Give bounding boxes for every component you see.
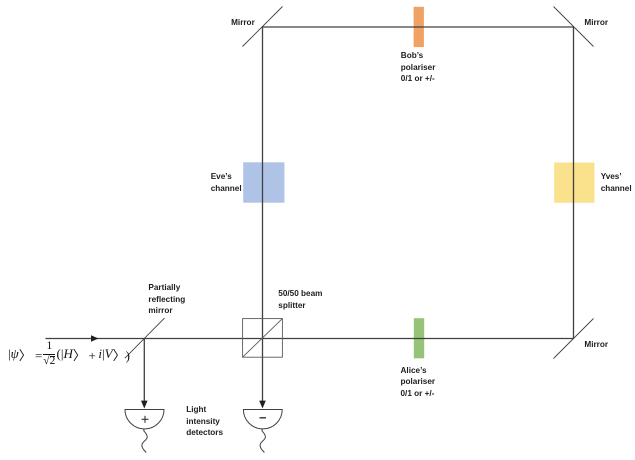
label: Partially reflecting mirror — [148, 282, 185, 317]
label: Eve's channel — [211, 171, 242, 194]
label: 50/50 beam splitter — [278, 288, 322, 311]
label: Bob's polariser 0/1 or +/- — [401, 50, 436, 85]
label: Mirror (top-right) — [584, 17, 608, 29]
input state formula — [8, 341, 130, 367]
label: Yves' channel — [601, 171, 632, 194]
label: Mirror (bottom-right) — [584, 339, 608, 351]
label: Light intensity detectors — [186, 404, 223, 439]
label: Alice's polariser 0/1 or +/- — [401, 365, 436, 400]
label: Mirror (top-left) — [231, 17, 255, 29]
